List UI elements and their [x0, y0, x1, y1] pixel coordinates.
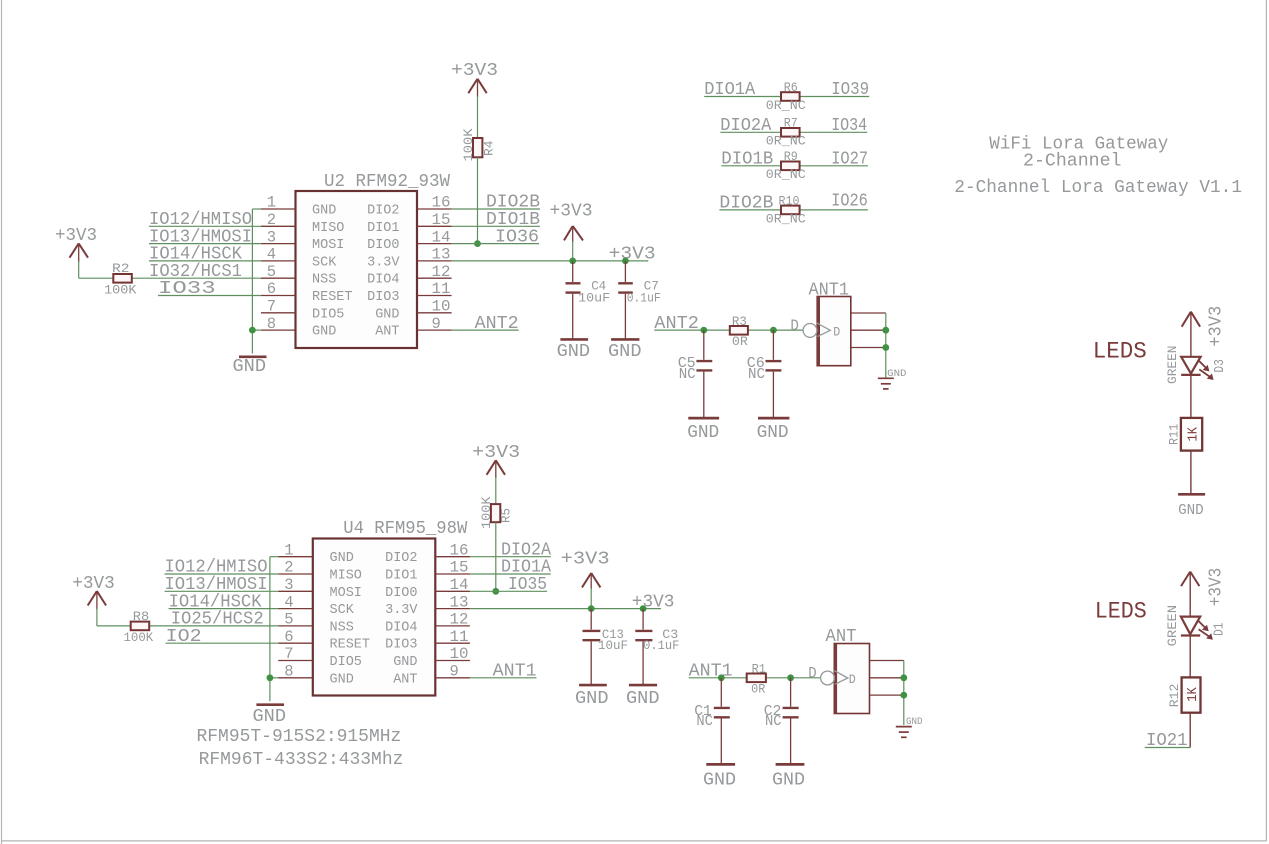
svg-text:GREEN: GREEN	[1165, 605, 1180, 647]
U2 pin 10	[417, 298, 452, 316]
net label IO12/HMISO	[149, 210, 252, 230]
ground GND under C2	[772, 764, 805, 790]
svg-text:8: 8	[267, 315, 276, 333]
wire U2 GND vertical pin1-pin8	[252, 209, 261, 354]
earth ground under ANT	[896, 717, 923, 738]
junction U4 pin8 GND	[267, 674, 274, 681]
junction C4 / +3V3 rail	[569, 258, 576, 265]
svg-text:NC: NC	[696, 713, 713, 730]
wire net IO12/HMISO to U2 pin2	[149, 225, 261, 227]
svg-text:GND: GND	[757, 422, 789, 443]
svg-text:GND: GND	[906, 717, 923, 728]
svg-text:R2: R2	[112, 262, 130, 276]
wire ANT ground rail	[903, 661, 905, 725]
svg-text:GND: GND	[557, 342, 591, 362]
svg-text:U2 RFM92_93W: U2 RFM92_93W	[324, 172, 450, 192]
wire +3V3 to LED D3	[1190, 312, 1192, 357]
net label DIO1B	[486, 210, 540, 230]
ground GND under C4	[557, 339, 591, 362]
svg-text:16: 16	[432, 194, 451, 212]
svg-text:DIO2A: DIO2A	[720, 116, 771, 136]
svg-text:+3V3: +3V3	[72, 574, 115, 594]
svg-text:0R_NC: 0R_NC	[766, 167, 806, 182]
wire net ANT2 from U2 pin9	[452, 329, 519, 331]
svg-text:DIO1A: DIO1A	[704, 80, 755, 100]
svg-text:R11: R11	[1166, 424, 1181, 445]
svg-text:+3V3: +3V3	[1207, 568, 1227, 607]
svg-text:MOSI: MOSI	[312, 238, 344, 253]
U4 pin 12	[435, 611, 470, 629]
net label DIO1B	[721, 150, 773, 170]
svg-text:0R_NC: 0R_NC	[766, 211, 806, 226]
svg-text:10uF: 10uF	[598, 639, 628, 653]
svg-text:14: 14	[432, 228, 451, 246]
U2 pin 9	[417, 315, 452, 333]
title text 2-Channel Lora Gateway V1.1	[954, 178, 1242, 198]
svg-text:12: 12	[450, 611, 469, 629]
net label IO14/HSCK	[149, 245, 242, 265]
U4 pin 13	[435, 593, 470, 611]
resistor R5 100K vertical	[479, 496, 514, 529]
U4 pin 5	[278, 611, 313, 629]
svg-text:IO34: IO34	[831, 116, 867, 136]
wire +3V3 to LED D1	[1189, 572, 1191, 617]
svg-text:GND: GND	[703, 770, 736, 791]
svg-text:RESET: RESET	[312, 290, 353, 305]
frame left edge	[1, 0, 3, 844]
svg-text:100K: 100K	[479, 496, 494, 529]
wire net IO2 to U4 pin6	[166, 642, 279, 644]
ground GND under C13	[575, 685, 609, 709]
svg-text:9: 9	[432, 315, 441, 333]
svg-text:GND: GND	[772, 770, 805, 791]
wire net ANT2 to R3	[654, 329, 803, 331]
svg-text:GND: GND	[375, 307, 399, 322]
U4 pin 1	[278, 541, 313, 559]
ANT1 ground pin middle	[851, 329, 886, 331]
svg-text:2: 2	[284, 559, 293, 577]
svg-text:IO26: IO26	[831, 192, 868, 212]
net label IO21	[1145, 731, 1190, 751]
svg-text:5: 5	[267, 263, 276, 281]
junction ANT2 / C5	[700, 327, 707, 334]
U4 pin 10	[435, 645, 470, 663]
svg-text:DIO0: DIO0	[385, 586, 417, 601]
svg-text:GND: GND	[233, 357, 267, 377]
junction C13 / +3V3 rail	[588, 605, 595, 612]
U2 pin 1	[261, 194, 296, 212]
wire net IO36 from U2 pin14	[452, 243, 539, 245]
svg-text:10uF: 10uF	[578, 291, 610, 305]
ANT ground pin middle	[870, 677, 904, 679]
ground GND under U4	[253, 705, 287, 727]
frame bottom edge	[2, 840, 1267, 842]
capacitor C3 0.1uF	[635, 609, 679, 685]
wire net ANT1 to R1	[689, 677, 821, 679]
svg-text:DIO2: DIO2	[367, 204, 399, 219]
wire R11 to GND	[1190, 451, 1192, 493]
svg-text:IO2: IO2	[166, 627, 202, 647]
svg-text:IO36: IO36	[495, 227, 539, 247]
wire net IO32/HCS1 from R2 to U2 pin5	[79, 277, 261, 279]
ground GND under C5	[687, 418, 719, 443]
junction C3 / +3V3 rail	[640, 605, 647, 612]
note text RFM96T-433S2:433Mhz	[199, 750, 404, 770]
svg-text:1K: 1K	[1186, 686, 1201, 701]
U2 pin 13	[417, 246, 452, 264]
svg-text:4: 4	[284, 593, 293, 611]
junction R4 / IO36	[474, 240, 481, 247]
junction ANT1 / C1	[718, 674, 725, 681]
ANT connector pin circle	[821, 671, 835, 685]
svg-text:R3: R3	[732, 315, 747, 329]
svg-text:4: 4	[267, 246, 276, 264]
connector ANT body	[826, 627, 870, 713]
junction U2 pin8 GND	[249, 327, 256, 334]
svg-text:DIO4: DIO4	[385, 620, 417, 635]
svg-text:+3V3: +3V3	[609, 244, 656, 264]
ANT ground pin bottom	[870, 694, 904, 696]
svg-text:3: 3	[284, 576, 293, 594]
net label DIO1A at U4	[501, 558, 551, 578]
net label IO2	[166, 627, 202, 647]
wire LED D3 to R11	[1190, 375, 1192, 418]
wire +3V3 rail from U2 pin13	[452, 260, 649, 262]
wire net DIO2A to R7 to IO34	[720, 131, 867, 133]
svg-text:15: 15	[450, 559, 469, 577]
earth ground under ANT1	[878, 369, 907, 389]
net label +3V3 at rail end	[609, 244, 656, 264]
resistor R12 1K	[1167, 677, 1201, 712]
svg-text:GREEN: GREEN	[1165, 346, 1180, 385]
svg-text:RESET: RESET	[330, 638, 371, 653]
svg-text:GND: GND	[253, 707, 287, 727]
power +3V3 at D1 (rotated)	[1181, 568, 1227, 607]
U4 pin 16	[435, 541, 470, 559]
note text RFM95T-915S2:915MHz	[197, 727, 402, 747]
svg-text:U4 RFM95_98W: U4 RFM95_98W	[343, 519, 467, 539]
resistor R10 0R_NC	[766, 194, 806, 226]
svg-text:10: 10	[450, 645, 469, 663]
ANT1 connector pin circle	[803, 324, 817, 338]
svg-text:0.1uF: 0.1uF	[627, 291, 661, 305]
svg-text:6: 6	[284, 628, 293, 646]
ANT connector pin label D left	[808, 665, 816, 683]
svg-text:3: 3	[267, 228, 276, 246]
svg-text:IO35: IO35	[508, 575, 547, 595]
net label ANT2 at RF filter	[654, 314, 699, 334]
svg-text:NSS: NSS	[330, 620, 354, 635]
IC U2 RFM92_93W body	[296, 172, 451, 348]
wire U4 GND vertical pin1-pin8	[270, 557, 278, 702]
resistor R2 100K	[104, 262, 137, 297]
wire net IO14/HSCK to U4 pin4	[169, 608, 279, 610]
net label IO34	[831, 116, 867, 136]
svg-text:GND: GND	[312, 325, 336, 340]
U4 pin 14	[435, 576, 470, 594]
svg-text:R10: R10	[779, 194, 800, 208]
wire net DIO1A from U4 pin15	[470, 573, 551, 575]
resistor R7 0R_NC	[766, 117, 806, 149]
svg-text:13: 13	[432, 246, 451, 264]
svg-text:14: 14	[450, 576, 469, 594]
ANT1 connector pin label D left	[790, 317, 799, 335]
svg-text:GND: GND	[887, 369, 906, 380]
svg-text:ANT2: ANT2	[654, 314, 699, 334]
power +3V3 arrow above C13	[561, 550, 610, 590]
wire ANT1 ground rail	[885, 313, 887, 378]
net label IO25/HCS2	[171, 610, 264, 630]
net label IO36	[495, 227, 539, 247]
wire net DIO2A from U4 pin16	[470, 556, 551, 558]
svg-text:+3V3: +3V3	[561, 550, 610, 570]
ANT connector pin triangle	[834, 671, 848, 685]
svg-text:1: 1	[284, 541, 293, 559]
capacitor C6 NC	[747, 330, 782, 418]
ANT ground pin top	[870, 660, 904, 662]
capacitor C1 NC	[694, 678, 730, 764]
connector ANT1 body	[809, 281, 851, 366]
svg-text:D1: D1	[1212, 623, 1227, 636]
svg-text:SCK: SCK	[330, 603, 355, 618]
svg-text:GND: GND	[312, 204, 336, 219]
wire net IO33 to U2 pin6	[158, 295, 261, 297]
net label DIO2B	[486, 193, 540, 213]
wire +3V3 stem to R8 corner	[96, 609, 98, 626]
svg-text:R1: R1	[752, 662, 766, 676]
svg-text:8: 8	[284, 663, 293, 681]
net label IO39	[831, 80, 869, 100]
svg-text:100K: 100K	[124, 630, 154, 645]
svg-text:0R: 0R	[732, 334, 748, 349]
svg-text:D: D	[790, 317, 799, 335]
svg-text:3.3V: 3.3V	[367, 255, 400, 270]
wire +3V3 to R5 top	[495, 477, 497, 504]
svg-text:7: 7	[284, 645, 293, 663]
svg-text:ANT1: ANT1	[689, 662, 733, 682]
ANT1 ground pin bottom	[851, 347, 886, 349]
U4 pin 9	[435, 663, 470, 681]
svg-text:5: 5	[284, 611, 293, 629]
svg-text:D3: D3	[1213, 359, 1228, 373]
svg-text:R5: R5	[499, 508, 514, 523]
svg-text:15: 15	[432, 211, 451, 229]
power +3V3 arrow above C4	[550, 202, 593, 242]
net label IO14/HSCK at U4	[169, 592, 262, 612]
resistor R1 0R	[747, 662, 766, 696]
net label ANT1 at U4 pin9	[493, 662, 537, 682]
svg-text:9: 9	[450, 663, 459, 681]
junction R3 / C6	[770, 327, 777, 334]
svg-text:MISO: MISO	[330, 569, 362, 584]
wire net IO25/HCS2 from R8 to U4 pin5	[97, 625, 278, 627]
svg-text:ANT: ANT	[375, 325, 399, 340]
U4 pin 8	[278, 663, 313, 681]
junction R5 / IO35	[492, 588, 499, 595]
net label DIO2B at R10	[719, 194, 773, 214]
svg-text:+3V3: +3V3	[55, 226, 97, 246]
svg-text:GND: GND	[1178, 503, 1204, 519]
U2 pin 5	[261, 263, 296, 281]
svg-text:+3V3: +3V3	[1206, 306, 1226, 347]
resistor R8 100K	[124, 610, 154, 645]
svg-text:MISO: MISO	[312, 221, 344, 236]
svg-text:3.3V: 3.3V	[385, 603, 418, 618]
svg-text:GND: GND	[575, 689, 609, 709]
ground GND under C1	[703, 764, 736, 790]
net label IO13/HMOSI	[149, 227, 252, 247]
LED D3 GREEN	[1165, 346, 1228, 385]
svg-text:GND: GND	[687, 422, 719, 443]
wire net DIO1B to R9 to IO27	[721, 165, 868, 167]
net label IO32/HCS1	[149, 262, 242, 282]
IC U4 RFM95_98W body	[313, 519, 468, 696]
junction ANT1 bottom pin	[882, 344, 889, 351]
resistor R6 0R_NC	[766, 81, 806, 113]
wire net IO14/HSCK to U2 pin4	[149, 260, 261, 262]
svg-text:NSS: NSS	[312, 273, 336, 288]
svg-text:GND: GND	[608, 342, 642, 362]
net label ANT1 at RF filter	[689, 662, 733, 682]
svg-text:R12: R12	[1167, 684, 1182, 708]
U2 pin 2	[261, 211, 296, 229]
resistor R4 100K vertical	[461, 128, 497, 161]
svg-text:IO33: IO33	[158, 279, 216, 299]
svg-text:0R_NC: 0R_NC	[766, 134, 806, 149]
wire net DIO1B from U2 pin15	[452, 225, 540, 227]
wire R12 to IO21	[1189, 713, 1191, 748]
ground GND under C6	[757, 418, 790, 443]
svg-text:2: 2	[267, 211, 276, 229]
svg-text:100K: 100K	[104, 283, 137, 298]
U2 pin 15	[417, 211, 452, 229]
wire net ANT1 from U4 pin9	[470, 677, 537, 679]
svg-text:2-Channel Lora Gateway V1.1: 2-Channel Lora Gateway V1.1	[954, 178, 1242, 198]
svg-text:MOSI: MOSI	[330, 586, 362, 601]
junction ANT1 middle pin	[882, 327, 889, 334]
svg-text:DIO3: DIO3	[385, 638, 417, 653]
wire net IO12/HMISO to U4 pin2	[165, 573, 279, 575]
svg-text:NC: NC	[748, 366, 765, 383]
wire net DIO1A to R6 to IO39	[704, 96, 869, 98]
capacitor C4 10uF	[566, 261, 611, 340]
wire R4 bottom to IO36 net	[477, 157, 479, 243]
svg-text:ANT1: ANT1	[493, 662, 537, 682]
U4 pin 3	[278, 576, 313, 594]
svg-text:11: 11	[432, 280, 451, 298]
title text WiFi Lora Gateway	[989, 135, 1168, 155]
U4 pin 11	[435, 628, 470, 646]
wire +3V3 rail from U4 pin13	[470, 608, 661, 610]
power +3V3 above R4	[451, 61, 498, 97]
svg-text:1: 1	[267, 194, 276, 212]
capacitor C2 NC	[764, 678, 799, 764]
ANT1 connector pin triangle	[817, 323, 831, 337]
net label IO27	[831, 150, 868, 170]
svg-text:DIO3: DIO3	[367, 290, 399, 305]
ANT1 ground pin top	[851, 312, 886, 314]
svg-text:GND: GND	[330, 551, 354, 566]
svg-text:0R_NC: 0R_NC	[766, 98, 806, 113]
U2 pin 8	[261, 315, 296, 333]
net label IO13/HMOSI at U4	[165, 575, 268, 595]
U2 pin 14	[417, 228, 452, 246]
junction C7 / +3V3 rail	[622, 258, 629, 265]
wire +3V3 arrow stem to U4 rail	[590, 588, 592, 609]
net label DIO1A	[704, 80, 755, 100]
power +3V3 at R2	[55, 226, 97, 262]
svg-text:+3V3: +3V3	[550, 202, 593, 222]
svg-text:NC: NC	[679, 366, 696, 383]
U2 pin 6	[261, 280, 296, 298]
svg-text:D: D	[849, 672, 856, 687]
net label +3V3 at U4 rail end	[632, 592, 675, 612]
svg-text:D: D	[808, 665, 816, 683]
U2 pin 7	[261, 298, 296, 316]
U4 pin 6	[278, 628, 313, 646]
wire net DIO2B to R10 to IO26	[719, 209, 867, 211]
svg-text:ANT2: ANT2	[475, 314, 519, 334]
net label DIO2A at U4	[501, 540, 551, 560]
U2 pin 16	[417, 194, 452, 212]
LED D1 GREEN	[1165, 605, 1227, 647]
capacitor C13 10uF	[583, 609, 629, 685]
U2 pin 11	[417, 280, 452, 298]
wire +3V3 stem to R2 corner	[78, 261, 80, 278]
net label IO12/HMISO at U4	[165, 558, 268, 578]
svg-text:DIO1: DIO1	[385, 569, 417, 584]
wire net IO13/HMOSI to U2 pin3	[149, 243, 261, 245]
U4 pin 15	[435, 559, 470, 577]
svg-text:12: 12	[432, 263, 451, 281]
svg-text:+3V3: +3V3	[451, 61, 498, 81]
U4 pin 2	[278, 559, 313, 577]
svg-text:NC: NC	[765, 713, 782, 730]
svg-text:GND: GND	[626, 689, 660, 709]
svg-text:R9: R9	[784, 150, 798, 164]
U2 pin 3	[261, 228, 296, 246]
wire +3V3 arrow stem to rail	[572, 241, 574, 261]
svg-text:13: 13	[450, 593, 469, 611]
svg-text:RFM95T-915S2:915MHz: RFM95T-915S2:915MHz	[197, 727, 402, 747]
net label IO26	[831, 192, 868, 212]
title text 2-Channel	[1023, 151, 1122, 171]
section label LEDS bottom	[1095, 599, 1147, 625]
svg-text:DIO5: DIO5	[312, 307, 344, 322]
svg-text:2-Channel: 2-Channel	[1023, 151, 1122, 171]
svg-text:SCK: SCK	[312, 255, 337, 270]
resistor R3 0R	[730, 315, 748, 349]
svg-text:DIO0: DIO0	[367, 238, 399, 253]
svg-text:0R: 0R	[751, 682, 765, 697]
junction ANT middle pin	[900, 674, 907, 681]
svg-text:ANT: ANT	[393, 672, 417, 687]
section label LEDS top	[1093, 339, 1147, 365]
svg-text:100K: 100K	[461, 128, 476, 161]
net label IO33	[158, 279, 216, 299]
svg-text:GND: GND	[393, 655, 417, 670]
ground GND under R11	[1178, 494, 1205, 519]
resistor R9 0R_NC	[766, 150, 806, 182]
capacitor C7 0.1uF	[618, 261, 661, 340]
ground GND under C7	[608, 339, 642, 362]
U4 pin 4	[278, 593, 313, 611]
svg-text:LEDS: LEDS	[1093, 339, 1147, 365]
power +3V3 above R5	[472, 443, 520, 478]
U2 pin 4	[261, 246, 296, 264]
svg-text:10: 10	[432, 298, 451, 316]
svg-text:DIO1: DIO1	[367, 221, 399, 236]
